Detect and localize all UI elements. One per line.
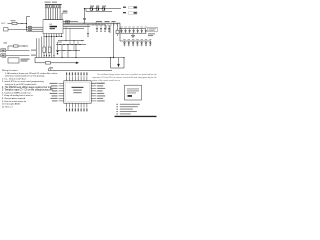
svg-text:11. Rev C 2: 11. Rev C 2 [2,106,14,108]
microcontroller U1 body [43,20,63,34]
junction node at rail A left [84,8,85,9]
wire - U1 bottom bus [44,36,63,38]
diode D1 [90,8,93,11]
wire - ground rail stub right [114,57,125,59]
svg-text:9. See the errata sheet for: 9. See the errata sheet for [2,100,26,103]
svg-text:using the 6 pin ICSP header bl: using the 6 pin ICSP header block [5,83,37,86]
capacitor C20 [132,39,134,46]
wire - RXD line [27,26,44,28]
junction dot VCC feed [21,23,22,24]
diode D2 [96,8,99,11]
capacitor C21 [136,39,138,46]
wire - long bottom run [48,69,112,71]
capacitor C2 box [4,28,9,31]
run end ticks [49,67,54,70]
wire - ground rail [35,57,114,59]
signal labels [28,26,32,31]
junction dots on rail A [90,8,103,9]
U2 right pin leads [91,83,96,101]
microcontroller U2 body [64,81,91,103]
wire - bank A bottom rail [121,32,147,34]
wire - U1 pin12 net [63,21,78,23]
resistor R1 [12,22,17,24]
power connector P1 [123,6,137,9]
wire - U1 pin15 net [63,24,106,26]
reference label R1 [11,20,16,21]
resistor R4 [48,47,51,53]
svg-text:10. Decouple AVdd: 10. Decouple AVdd [2,103,20,106]
wire - port bus row [58,40,84,42]
wire - vertical drop net2 [109,25,111,33]
wire - drop pin13 to mid bus [69,28,71,44]
svg-text:maker of the crystal used here: maker of the crystal used here as [92,79,120,82]
wire - rail join [85,9,87,12]
wire - RTS line [27,30,44,32]
svg-text:U1: U1 [50,24,54,26]
junction dots on port bus row [66,40,83,41]
label above sense line [4,42,8,43]
capacitor C13 [128,27,130,34]
signal arrow right [75,62,79,64]
capacitor C8 [87,27,89,37]
X1 value labels [21,59,30,62]
U1 part label [50,24,58,29]
ground symbol bank A [131,35,135,37]
U2 top pin labels [66,72,87,75]
wire - lower horizontal run [35,58,76,63]
wire - bank A ground drop [132,33,134,35]
svg-text:1. All resistors shown are 1/8: 1. All resistors shown are 1/8 watt 5% c… [5,72,57,75]
junction dots on U1 bottom bus [46,36,62,37]
svg-text:otherwise noted elsewhere on t: otherwise noted elsewhere on this drawin… [5,75,45,78]
arrow into note [117,58,120,68]
U2 right pin labels [97,83,105,102]
wire - sense loop [111,58,125,69]
junction dot left branch [26,23,27,28]
bank A note text [148,33,155,36]
diode D4 vertical [57,42,62,55]
U2 part labels [72,87,84,93]
wire - bank A top rail [120,28,146,30]
J1 signal label [31,50,37,51]
title block text [127,88,139,96]
capacitor C16 [141,27,143,34]
resistor R2 [14,45,19,47]
junction dots on U1 output nets [83,23,96,26]
wire - RN1 bottom rail [44,19,63,21]
wire - bank B top rail [120,40,151,42]
capacitor C5 [104,25,106,32]
U2 left pin leads [59,83,64,101]
svg-text:6. Crystal is 20MHz parallel c: 6. Crystal is 20MHz parallel cut [2,91,31,94]
capacitor C23 [145,39,147,46]
value labels above rail [90,6,106,7]
wire - J1 lead [6,49,30,51]
bus pin hatch ticks [93,23,117,25]
application note text [92,73,157,84]
connector J4 [66,21,70,24]
U2 left pin labels [50,83,58,102]
capacitor C11 [120,27,122,34]
capacitor C3 [96,25,98,32]
svg-text:capacitors C21 and C22 are cho: capacitors C21 and C22 are chosen to mat… [92,76,157,79]
svg-text:VCC: VCC [1,23,6,25]
crystal X1 box [8,58,19,63]
J2 signal label [31,55,36,56]
wire - top rail B [86,10,112,12]
ferrite bead FB1 [46,62,51,65]
wire - drop port bus to mid bus [77,41,79,45]
wire - drop pin14 to port bus [65,27,67,41]
value label RN1 10K [45,2,58,3]
wire - long vertical to ground rail [113,23,115,57]
svg-text:8. Ground plane required: 8. Ground plane required [2,97,26,100]
diode D3 [102,8,105,11]
connector J1 [1,49,6,52]
wire - J2 lead [6,54,30,56]
net label VCC [1,23,6,25]
svg-text:3. Install JP1 for in-circuit: 3. Install JP1 for in-circuit serial pro… [2,80,44,83]
svg-text:4. The RS232 level shifter sta: 4. The RS232 level shifter stage require… [2,86,52,89]
connector J2 [1,54,6,57]
wire - U1 pin14 net [63,26,90,28]
junction dots on mid bus [59,44,80,45]
U2 bottom pin labels [66,108,87,111]
junction dots sense loop [110,57,125,58]
U2 top pin leads [67,76,87,81]
wire - U1 pin13 net [63,27,84,29]
title block box [125,85,142,100]
capacitor C24 [149,39,151,46]
capacitor C10 [116,30,119,36]
resistor R3 [43,47,46,53]
wire - top rail A [86,8,121,10]
capacitor C19 [128,39,130,46]
wire - left vertical branch [27,17,31,32]
wires - vertical net comb [37,37,55,58]
U2 bottom pin leads [67,103,87,107]
svg-text:The oscillator design shown he: The oscillator design shown here uses a … [97,73,157,76]
capacitor C4 [100,25,102,32]
notes list [2,69,57,108]
wire - drop port bus to low bus [73,41,75,51]
capacitor C14 [132,27,134,34]
capacitor C17 [145,27,147,34]
wire - mid bus drops [62,45,76,58]
capacitor C22 [141,39,143,46]
junction dots on ground rail [61,57,114,58]
resistor network RN1 (bussed, 7 elements) [45,4,62,20]
wire - vertical drop net1 [105,25,107,30]
power connector P2 [123,12,137,15]
wire - C2 to branch [8,28,27,30]
net label VCC stub [63,11,68,12]
wire - TXD line [27,28,44,30]
capacitor C18 [123,39,125,46]
reference label X1 [2,57,6,58]
wire - VCC feed [8,22,27,24]
net name labels [96,21,116,22]
wire - bank feed vertical [119,23,121,41]
junction dots on low bus row [58,50,77,51]
capacitor C6 [108,25,110,32]
capacitor C12 [124,27,126,34]
capacitor C15 [137,27,139,34]
U1 bottom pin leads [44,34,62,37]
U2 inner outline [65,82,89,101]
svg-text:5. Tantalum caps C3 - C6 on th: 5. Tantalum caps C3 - C6 on the charge p… [2,89,54,92]
wire - sense line [8,46,28,50]
revision list [117,104,140,115]
svg-text:7. Keep all analog traces shor: 7. Keep all analog traces short as [2,94,33,97]
footer rule text [115,116,157,117]
junction dot sense line [23,45,24,46]
junction dots above ground rail [44,55,55,56]
wire - mid horizontal bus [56,44,86,46]
capacitor C9 (polarized) [83,18,86,23]
svg-text:Wiring list notes :: Wiring list notes : [2,69,19,72]
wire - drop to C9 [85,9,87,19]
wire - drop into C10 [117,23,119,30]
junction dot bank A feed [119,28,120,29]
wire - pull-up feed elbow [62,13,68,20]
svg-text:2. C1 - C8 are 0.1uF discs: 2. C1 - C8 are 0.1uF discs [2,77,26,80]
bank A note box [148,27,158,31]
wire - low bus row [56,50,80,52]
wire - U1 pin16 net [63,22,120,24]
